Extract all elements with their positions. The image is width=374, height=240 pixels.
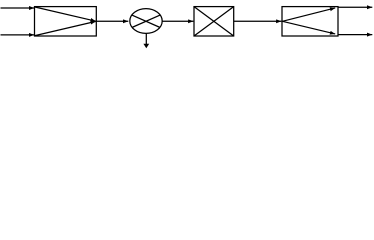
- wire: bottom output arrow: [338, 34, 372, 36]
- wire: U4 lower diverging arrow: [282, 21, 335, 34]
- wire: channel to demultiplexer: [234, 20, 282, 22]
- block U1: multiplexer box: [35, 7, 97, 36]
- wire: U4 upper diverging arrow: [282, 8, 335, 21]
- U3 X diagonal 1: [194, 7, 234, 36]
- wire: mixer down arrow: [143, 34, 149, 49]
- block U4: demultiplexer box: [282, 7, 338, 36]
- wire: U1 upper converging arrow: [35, 7, 96, 21]
- wire: mixer output to channel box: [162, 20, 193, 22]
- wire: U1 lower converging arrow: [35, 21, 96, 35]
- wire: bottom input arrow: [1, 34, 35, 36]
- block U3: channel box: [194, 7, 234, 36]
- mixer U2: X leg 2: [132, 15, 160, 27]
- mixer U2: X leg 1: [132, 15, 160, 27]
- mixer U2: ellipse: [130, 9, 162, 34]
- wire: U1 output to mixer: [96, 20, 128, 22]
- wire: top output arrow: [338, 6, 372, 8]
- U3 X diagonal 2: [194, 7, 234, 36]
- wire: top input arrow: [1, 7, 35, 9]
